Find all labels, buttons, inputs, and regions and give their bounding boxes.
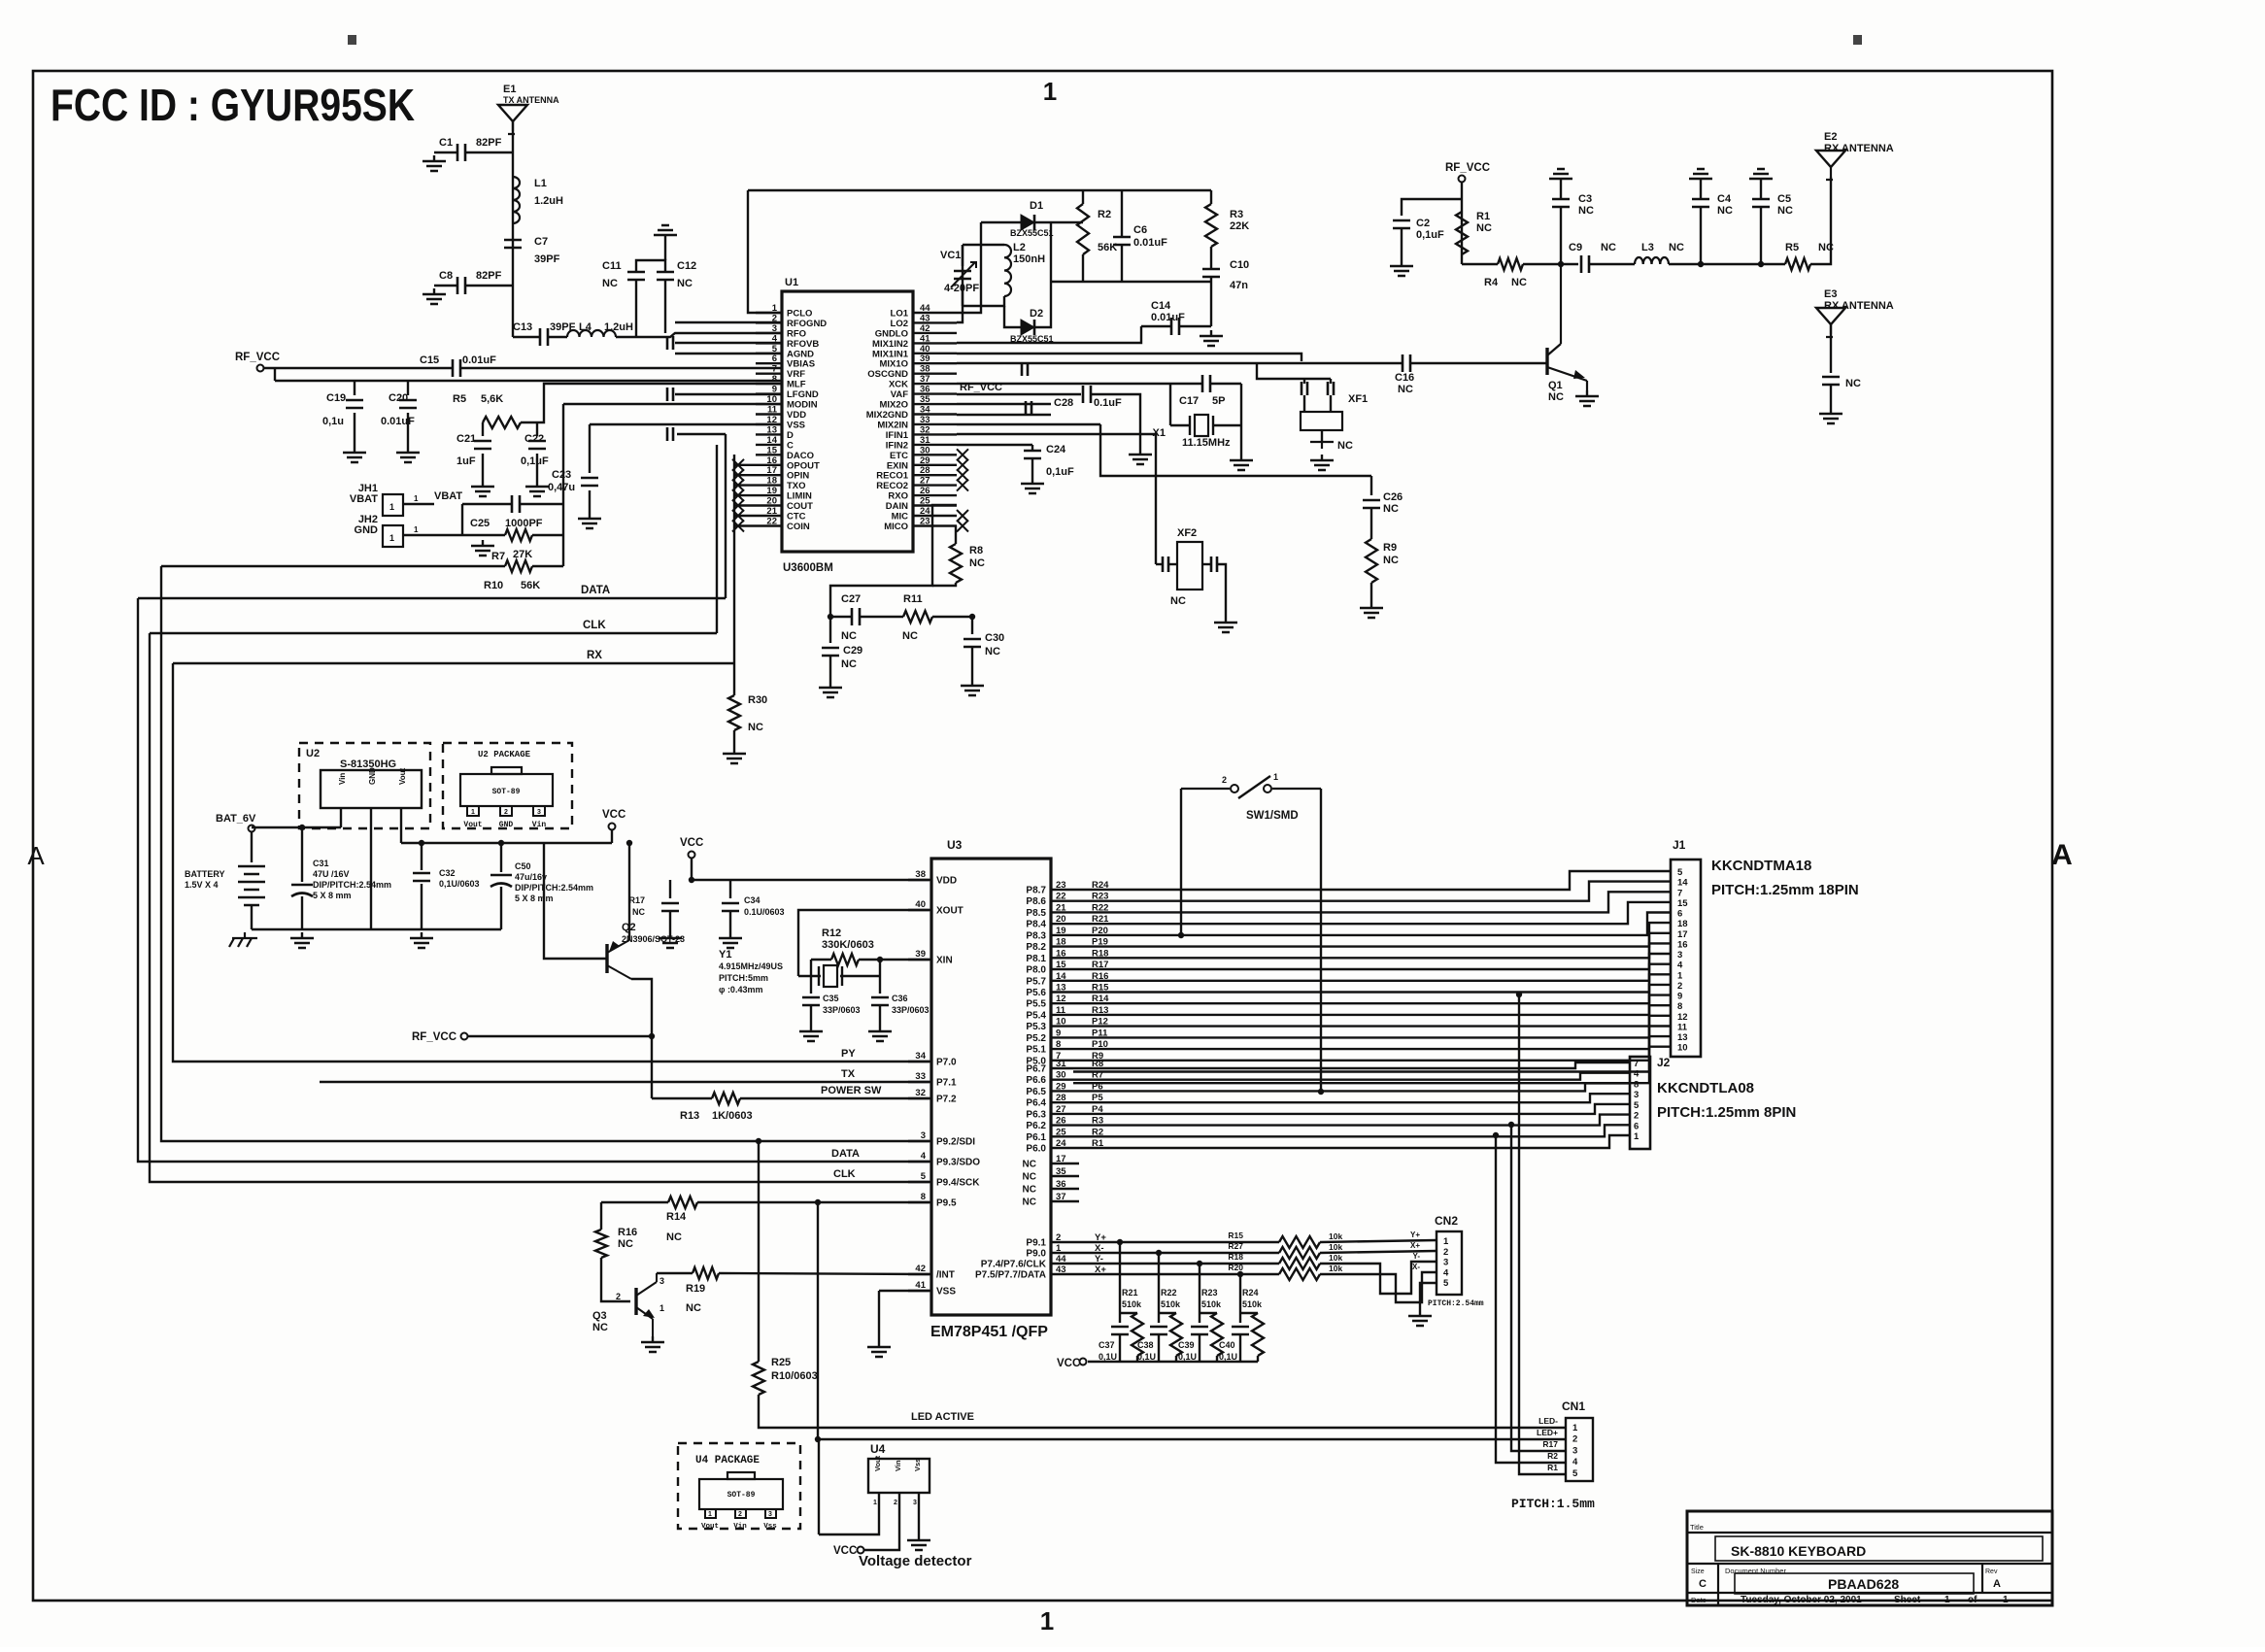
wire VSS ground <box>879 1290 930 1292</box>
svg-text:R24: R24 <box>1242 1288 1259 1298</box>
bus wire U3 to J1 pin row 12 <box>1073 985 1671 1015</box>
wire C31 bottom <box>301 896 303 929</box>
wire C5 down <box>1760 207 1762 264</box>
svg-text:Vin: Vin <box>532 821 547 829</box>
svg-text:1K/0603: 1K/0603 <box>712 1110 753 1122</box>
capacitor C5 <box>1752 199 1770 207</box>
svg-text:P6.6: P6.6 <box>1026 1075 1046 1086</box>
svg-text:R11: R11 <box>903 593 923 605</box>
svg-text:MIX1IN2: MIX1IN2 <box>872 339 908 350</box>
wire R15 row left <box>1073 1241 1279 1243</box>
svg-text:1: 1 <box>389 533 394 543</box>
svg-text:NC: NC <box>1601 242 1616 253</box>
svg-text:13: 13 <box>1056 983 1066 994</box>
svg-text:VCC: VCC <box>1057 1358 1080 1369</box>
svg-text:29: 29 <box>920 455 930 466</box>
wire C9 to L3 <box>1589 263 1635 265</box>
svg-text:3: 3 <box>1572 1445 1577 1456</box>
wire U1 pin4 stub row <box>675 342 782 344</box>
svg-text:POWER SW: POWER SW <box>821 1085 882 1096</box>
capacitor C40 <box>1232 1327 1249 1334</box>
junction R22 top <box>1156 1250 1162 1256</box>
svg-text:J1: J1 <box>1673 838 1686 852</box>
svg-text:30: 30 <box>1056 1070 1066 1081</box>
wire Q2 base <box>544 843 607 959</box>
U1 pin 27 no-connect X <box>957 480 968 491</box>
svg-text:MIC: MIC <box>892 512 909 523</box>
svg-text:NC: NC <box>841 658 857 670</box>
svg-text:E1: E1 <box>503 84 516 95</box>
svg-text:16: 16 <box>1056 948 1066 959</box>
svg-text:VDD: VDD <box>787 410 806 421</box>
svg-text:LED ACTIVE: LED ACTIVE <box>911 1411 974 1423</box>
U3 pin 22 stub <box>1051 900 1073 902</box>
antenna E1 <box>498 105 527 121</box>
svg-text:5: 5 <box>772 344 778 354</box>
svg-text:GNDLO: GNDLO <box>875 328 908 339</box>
svg-text:DACO: DACO <box>787 451 814 461</box>
svg-text:27K: 27K <box>513 549 532 560</box>
svg-text:R2: R2 <box>1547 1451 1558 1461</box>
inductor L1 <box>513 177 520 223</box>
svg-text:24: 24 <box>1056 1138 1066 1149</box>
wire JH2 pin <box>403 534 483 536</box>
svg-text:NC: NC <box>1023 1197 1036 1208</box>
U3 pin 16 stub <box>1051 957 1073 959</box>
svg-text:D1: D1 <box>1030 200 1043 212</box>
svg-text:Vin: Vin <box>733 1523 747 1531</box>
svg-text:Title: Title <box>1690 1523 1704 1532</box>
svg-text:Y-: Y- <box>1412 1252 1420 1261</box>
svg-text:R21: R21 <box>1122 1288 1138 1298</box>
bus wire U3 to J1 pin row 1 <box>1073 871 1671 890</box>
svg-text:28: 28 <box>920 465 930 476</box>
svg-text:8: 8 <box>921 1192 926 1202</box>
U1 pin 28 stub <box>913 474 957 476</box>
svg-text:8: 8 <box>772 374 777 385</box>
svg-text:C13: C13 <box>513 321 532 333</box>
svg-text:NC: NC <box>666 1231 682 1243</box>
svg-text:L4: L4 <box>579 321 592 333</box>
svg-text:15: 15 <box>1056 960 1066 970</box>
U4 SOT-89 body <box>699 1479 783 1509</box>
U1 pin 41 stub <box>913 342 957 344</box>
wire left rail DATA <box>138 598 930 1162</box>
node VCC CN2 <box>1080 1359 1087 1365</box>
svg-text:X-: X- <box>1412 1263 1420 1271</box>
wire C20 top <box>407 381 409 395</box>
svg-text:R4: R4 <box>1484 277 1499 288</box>
svg-text:XF2: XF2 <box>1177 527 1197 539</box>
U1 pin 32 stub <box>913 433 957 435</box>
svg-text:X+: X+ <box>1410 1241 1420 1250</box>
wire E3 stem <box>1830 324 1832 373</box>
wire XF1 feeder <box>1257 363 1331 379</box>
svg-text:9: 9 <box>772 385 777 395</box>
svg-text:35: 35 <box>1056 1166 1066 1177</box>
svg-text:C6: C6 <box>1133 224 1147 236</box>
U3 pin 23 stub <box>1051 889 1073 891</box>
svg-text:22: 22 <box>1056 892 1066 902</box>
capacitor C34 <box>722 903 739 911</box>
wire R24 column <box>1239 1274 1241 1323</box>
wire C8 right <box>465 285 513 287</box>
nc cap mark mix2o <box>1026 401 1031 415</box>
svg-text:0,1uF: 0,1uF <box>1416 229 1444 241</box>
svg-text:0,1U: 0,1U <box>1178 1352 1197 1362</box>
svg-text:Vout: Vout <box>701 1523 719 1531</box>
svg-text:X1: X1 <box>1153 427 1166 439</box>
svg-text:Tuesday, October 02, 2001: Tuesday, October 02, 2001 <box>1741 1595 1862 1605</box>
wire DAIN drop <box>830 505 957 617</box>
svg-text:RECO1: RECO1 <box>876 471 908 482</box>
wire C12 to ground <box>664 241 666 260</box>
wire R5 to E2 <box>1810 177 1831 264</box>
svg-text:510k: 510k <box>1201 1299 1222 1309</box>
svg-text:C19: C19 <box>326 392 346 404</box>
capacitor C50 electrolytic <box>490 874 512 877</box>
corner mark top right <box>1853 35 1862 45</box>
bus wire U3 to J1 pin row 3 <box>1073 892 1671 912</box>
svg-text:12: 12 <box>766 415 777 425</box>
wire row490 <box>1100 424 1371 476</box>
U1 pin 1 stub <box>756 312 782 314</box>
IC U4 body <box>868 1459 930 1493</box>
svg-text:PCLO: PCLO <box>787 309 812 320</box>
wire D2 left <box>1004 306 1021 327</box>
junction R25 column <box>756 1138 761 1144</box>
svg-text:5P: 5P <box>1212 395 1225 407</box>
svg-text:4: 4 <box>1443 1267 1449 1278</box>
svg-text:LED-: LED- <box>1538 1416 1558 1426</box>
bus wire U3 to J2 pin row 7 <box>1073 1125 1630 1136</box>
ground below C24 <box>1021 478 1044 493</box>
wire X1 right <box>1212 424 1241 426</box>
U1 pin 40 stub <box>913 353 957 354</box>
U1 pin 23 no-connect X <box>957 521 968 532</box>
U1 pin 16 stub <box>735 464 782 466</box>
wire R23 bottom <box>1216 1356 1218 1362</box>
U1 pin 42 stub <box>913 332 957 334</box>
U1 pin 15 stub <box>756 454 782 455</box>
junction J2 pin1 drop <box>1493 1132 1499 1138</box>
wire C22 top <box>536 422 538 436</box>
capacitor C21 <box>474 441 491 449</box>
resistor R3 <box>1205 204 1217 247</box>
node RF_VCC bottom <box>461 1033 468 1040</box>
wire pin39 row to C16 <box>957 362 1403 364</box>
U3 pin 1 stub <box>1051 1252 1073 1254</box>
U1 pin 3 stub <box>756 332 782 334</box>
svg-text:P8.0: P8.0 <box>1026 965 1046 976</box>
svg-text:3: 3 <box>772 323 777 334</box>
svg-text:U2 PACKAGE: U2 PACKAGE <box>478 750 531 759</box>
U1 pin 12 stub <box>756 423 782 425</box>
svg-text:43: 43 <box>920 313 930 323</box>
U1 pin 44 stub <box>913 312 957 314</box>
U3 pin 5 stub <box>908 1181 931 1183</box>
wire R7 row left <box>483 534 505 536</box>
svg-text:C27: C27 <box>841 593 861 605</box>
SOT-89 pin 1 <box>467 806 479 816</box>
wire C37 bottom <box>1119 1334 1121 1362</box>
title block line 3 <box>1687 1592 2052 1594</box>
svg-text:16: 16 <box>766 455 777 466</box>
svg-text:NC: NC <box>1023 1185 1036 1196</box>
ground above C11 C12 <box>654 225 677 241</box>
svg-text:VCC: VCC <box>602 809 625 821</box>
svg-text:RFOVB: RFOVB <box>787 339 819 350</box>
U1 pin 25 stub <box>913 504 957 506</box>
ground below XF2 <box>1214 617 1237 632</box>
svg-text:P8.2: P8.2 <box>1026 942 1046 953</box>
U1 pin 22 no-connect X <box>732 521 744 532</box>
wire pin44 to tank <box>957 222 981 313</box>
U1 pin 39 stub <box>913 362 957 364</box>
wire POWER SW row left <box>652 1097 712 1099</box>
title block rev divider <box>1981 1564 1983 1593</box>
resistor R23 <box>1211 1313 1223 1356</box>
wire C25 left drop <box>461 504 463 535</box>
svg-text:37: 37 <box>1056 1192 1066 1202</box>
svg-text:PITCH:1.25mm 18PIN: PITCH:1.25mm 18PIN <box>1711 882 1859 898</box>
svg-text:27: 27 <box>1056 1104 1066 1115</box>
XF2 right cap <box>1211 556 1217 572</box>
U3 pin 25 stub <box>1051 1135 1073 1137</box>
svg-text:C17: C17 <box>1179 395 1199 407</box>
wire P9.5 drop <box>818 1202 1566 1439</box>
svg-text:14: 14 <box>1056 971 1066 982</box>
capacitor C24 <box>1024 451 1041 458</box>
bus wire U3 to J1 pin row 7 <box>1073 933 1671 959</box>
svg-text:32: 32 <box>920 424 930 435</box>
bus wire U3 to J2 pin row 4 <box>1073 1094 1630 1102</box>
svg-text:82PF: 82PF <box>476 270 502 282</box>
wire MODIN row <box>563 403 782 405</box>
svg-text:0.01uF: 0.01uF <box>1151 312 1185 323</box>
svg-text:C8: C8 <box>439 270 453 282</box>
svg-text:2: 2 <box>1677 981 1682 992</box>
wire VCC to VDD <box>692 859 930 880</box>
svg-text:C34: C34 <box>744 895 761 905</box>
wire C29 bottom <box>829 656 831 682</box>
svg-text:FCC ID : GYUR95SK: FCC ID : GYUR95SK <box>51 80 415 130</box>
svg-text:J2: J2 <box>1657 1056 1671 1069</box>
svg-text:SOT-89: SOT-89 <box>727 1491 756 1500</box>
U1 pin 17 stub <box>735 474 782 476</box>
svg-text:A: A <box>2051 839 2073 871</box>
svg-text:C2: C2 <box>1416 218 1430 229</box>
wire C34 bottom <box>729 911 731 932</box>
wire TX row <box>320 1081 930 1083</box>
svg-text:0,1U: 0,1U <box>1219 1352 1237 1362</box>
bus wire U3 to J2 pin row 2 <box>1073 1073 1630 1080</box>
wire R25 column <box>758 1141 760 1362</box>
wire E1 stem <box>512 121 514 337</box>
battery cells <box>238 866 265 905</box>
wire pin43 to tank <box>957 245 963 322</box>
svg-text:DIP/PITCH:2.54mm: DIP/PITCH:2.54mm <box>515 883 593 893</box>
svg-text:3: 3 <box>537 809 541 816</box>
svg-text:23: 23 <box>1056 880 1066 891</box>
wire C2 bottom <box>1401 228 1403 260</box>
svg-text:21: 21 <box>1056 902 1066 913</box>
svg-text:C31: C31 <box>313 859 329 868</box>
title block line 1 <box>1687 1532 2052 1534</box>
svg-text:43: 43 <box>1056 1264 1066 1275</box>
U1 pin 36 stub <box>913 392 957 394</box>
wire C8 left <box>434 285 457 287</box>
wire C19 bottom <box>354 413 355 447</box>
svg-text:DATA: DATA <box>831 1148 860 1160</box>
wire R18 row left <box>1073 1263 1279 1264</box>
wire C36 bottom <box>879 1005 881 1026</box>
wire SW1 left leg <box>1180 789 1182 935</box>
svg-text:10k: 10k <box>1329 1264 1342 1273</box>
bus wire U3 to J1 pin row 13 <box>1073 995 1671 1027</box>
svg-text:P8.3: P8.3 <box>1026 930 1046 941</box>
U1 pin 13 stub <box>756 433 782 435</box>
svg-text:4: 4 <box>921 1151 927 1162</box>
IC U3 body <box>931 859 1051 1315</box>
svg-text:DIP/PITCH:2.54mm: DIP/PITCH:2.54mm <box>313 880 391 890</box>
svg-text:10: 10 <box>1677 1043 1688 1054</box>
svg-text:3: 3 <box>659 1276 664 1286</box>
capacitor C2 <box>1393 220 1410 228</box>
svg-text:VDD: VDD <box>936 876 957 887</box>
svg-text:VBAT: VBAT <box>350 493 378 505</box>
svg-text:TX ANTENNA: TX ANTENNA <box>503 95 559 105</box>
svg-text:LIMIN: LIMIN <box>787 491 812 502</box>
svg-text:VRF: VRF <box>787 369 805 380</box>
capacitor C37 <box>1111 1327 1129 1334</box>
nc cap mark pin13 row <box>667 427 673 441</box>
svg-text:NC: NC <box>1845 378 1861 389</box>
svg-text:21: 21 <box>766 506 777 517</box>
resistor R14 <box>668 1197 697 1208</box>
wire R20 row left <box>1073 1273 1279 1275</box>
svg-text:4: 4 <box>1634 1069 1640 1080</box>
wire R2 top <box>1082 190 1084 204</box>
wire XF1 right pin <box>1330 395 1332 412</box>
wire C24 top <box>1031 445 1033 451</box>
svg-text:XIN: XIN <box>936 956 953 966</box>
U1 pin 23 stub <box>913 524 957 526</box>
svg-text:φ :0.43mm: φ :0.43mm <box>719 985 762 995</box>
resistor R27 <box>1279 1247 1320 1259</box>
svg-text:PY: PY <box>841 1048 856 1060</box>
ground below Q3 <box>641 1336 664 1352</box>
wire R14 right <box>697 1201 930 1203</box>
U1 pin 34 stub <box>913 413 957 415</box>
wire XF2 left to body <box>1168 563 1177 565</box>
svg-text:RFOGND: RFOGND <box>787 319 827 329</box>
svg-text:0,1U/0603: 0,1U/0603 <box>439 879 480 889</box>
junction C50 <box>498 840 504 846</box>
wire U4 Vin <box>864 1493 899 1550</box>
svg-text:2: 2 <box>1443 1247 1448 1258</box>
svg-text:R2: R2 <box>1098 209 1111 220</box>
svg-text:NC: NC <box>1170 595 1186 607</box>
svg-text:37: 37 <box>920 374 930 385</box>
resistor R5 NC <box>1785 258 1810 270</box>
svg-text:NC: NC <box>1578 205 1594 217</box>
svg-text:OSCGND: OSCGND <box>867 369 908 380</box>
U1 pin 33 stub <box>913 423 957 425</box>
junction C30 top <box>969 614 975 620</box>
ground below R9 <box>1360 602 1383 618</box>
U3 pin 29 stub <box>1051 1090 1073 1092</box>
svg-text:6: 6 <box>1677 909 1682 920</box>
svg-text:R18: R18 <box>1228 1252 1243 1262</box>
junction R17 <box>689 877 694 883</box>
svg-text:7: 7 <box>772 364 777 375</box>
svg-text:NC: NC <box>1511 277 1527 288</box>
wire C40 bottom <box>1239 1334 1241 1362</box>
svg-text:0,47u: 0,47u <box>548 482 575 493</box>
U3 pin 4 stub <box>908 1161 931 1163</box>
resistor R16 <box>595 1230 607 1258</box>
ground below C20 <box>396 447 420 462</box>
svg-text:0,1uF: 0,1uF <box>521 455 549 467</box>
svg-text:R12: R12 <box>822 927 841 939</box>
svg-text:P7.2: P7.2 <box>936 1095 957 1105</box>
U3 pin 21 stub <box>1051 911 1073 913</box>
wire U2 Vin stub <box>340 808 342 827</box>
wire C35 col <box>810 960 812 994</box>
svg-text:C20: C20 <box>389 392 408 404</box>
svg-text:CN1: CN1 <box>1562 1399 1585 1413</box>
svg-text:Vout: Vout <box>463 821 482 829</box>
nc cap mark pin9 row <box>667 388 673 401</box>
svg-text:0.1uF: 0.1uF <box>1094 397 1122 409</box>
svg-text:27: 27 <box>920 476 930 487</box>
nc cap mark pin4 row <box>667 336 673 350</box>
U3 pin 14 stub <box>1051 980 1073 982</box>
svg-text:C15: C15 <box>420 354 439 366</box>
wire R21 bottom <box>1136 1356 1138 1362</box>
svg-text:15: 15 <box>766 445 777 455</box>
svg-text:1: 1 <box>2003 1595 2009 1605</box>
svg-text:C14: C14 <box>1151 300 1171 312</box>
svg-text:19: 19 <box>766 486 777 496</box>
svg-text:1: 1 <box>414 525 419 534</box>
wire R16 bottom <box>601 1258 630 1301</box>
svg-text:35: 35 <box>920 394 930 405</box>
svg-text:CTC: CTC <box>787 512 806 523</box>
svg-text:RF_VCC: RF_VCC <box>412 1031 456 1043</box>
wire BAT rail <box>251 831 253 862</box>
svg-text:Vout: Vout <box>873 1455 882 1471</box>
wire D1 left <box>981 221 1021 223</box>
svg-text:VCC: VCC <box>680 837 703 849</box>
U3 NC pin 35 stub <box>1051 1175 1079 1177</box>
svg-text:4: 4 <box>772 333 778 344</box>
svg-text:VSS: VSS <box>787 420 805 430</box>
resistor R2 <box>1077 204 1089 254</box>
connector J1 body <box>1671 860 1701 1057</box>
capacitor C39 <box>1191 1327 1208 1334</box>
svg-text:D2: D2 <box>1030 308 1043 320</box>
svg-text:38: 38 <box>920 364 930 375</box>
wire C17 left <box>1170 383 1202 385</box>
svg-text:/INT: /INT <box>936 1270 955 1281</box>
svg-text:RX ANTENNA: RX ANTENNA <box>1824 300 1894 312</box>
svg-text:P7.4/P7.6/CLK: P7.4/P7.6/CLK <box>981 1260 1047 1270</box>
ground below C29 <box>819 682 842 697</box>
U3 pin 26 stub <box>1051 1124 1073 1126</box>
resistor R15 <box>1279 1236 1320 1248</box>
